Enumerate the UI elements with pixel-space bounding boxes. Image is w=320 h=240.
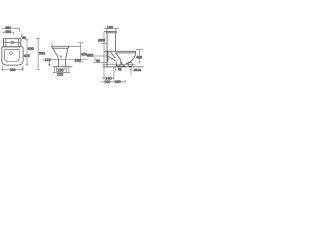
pedestal back inner line bbox=[107, 51, 109, 62]
dim 450 line and ticks bbox=[78, 43, 83, 62]
top dim ticks bbox=[107, 28, 116, 31]
center cross mark bbox=[60, 55, 62, 59]
front dim 220 line bbox=[53, 72, 70, 74]
dim 80 lower arrow bbox=[20, 43, 22, 45]
label 655 bbox=[28, 47, 34, 50]
label 228 bbox=[44, 58, 51, 62]
mid extension line bbox=[113, 67, 115, 80]
dim row1 arrows bbox=[2, 28, 20, 29]
svg-text:655: 655 bbox=[28, 47, 34, 51]
bowl-body right side bbox=[65, 46, 69, 67]
dim arrows 655 bbox=[26, 40, 27, 65]
seat rim side bbox=[104, 51, 136, 53]
trap curve 1 bbox=[110, 51, 116, 58]
dim 408 line bbox=[139, 50, 141, 58]
front floor line bbox=[53, 66, 72, 68]
inlet hole bbox=[10, 52, 13, 55]
front dim 190 line bbox=[57, 68, 67, 70]
flush button bbox=[11, 41, 13, 43]
dim 655-425 vertical line bbox=[26, 40, 29, 65]
bottom dim row1 ticks bbox=[110, 76, 112, 79]
plan bottom label 388 bbox=[10, 68, 16, 71]
228 down arrow bbox=[49, 61, 50, 66]
bottom dim row1 line bbox=[102, 77, 114, 79]
top dim 140 line bbox=[104, 28, 118, 30]
rim top extension line bbox=[69, 45, 81, 47]
bottom dim row2 line bbox=[101, 80, 126, 82]
trap outlet diagonal bbox=[120, 62, 126, 67]
tick above rim left bbox=[51, 43, 53, 46]
dim row2 line bbox=[2, 32, 13, 34]
front dim 190 arrows bbox=[57, 68, 67, 69]
micro label 48 bbox=[115, 67, 117, 71]
front ext lines below floor bbox=[55, 67, 69, 73]
dim row2 label 450 bbox=[5, 30, 10, 33]
label 220 bbox=[57, 73, 64, 76]
36 leader bbox=[93, 61, 107, 63]
rim top line bbox=[51, 45, 69, 47]
label 190 bbox=[57, 69, 63, 72]
underside to outlet bbox=[126, 62, 128, 64]
bowl outer plan bbox=[2, 47, 23, 65]
svg-text:48: 48 bbox=[118, 68, 122, 72]
dim row1 label 380 bbox=[5, 26, 12, 29]
dim 408 arrows bbox=[139, 50, 140, 64]
top dim label 180 bbox=[107, 26, 113, 29]
plan bottom dim 388 ext lines bbox=[2, 66, 23, 71]
svg-text:408: 408 bbox=[136, 56, 142, 60]
label 425 bbox=[24, 54, 30, 57]
svg-text:425: 425 bbox=[24, 54, 30, 58]
label 408 bbox=[136, 56, 142, 59]
trap inner curve bbox=[109, 57, 116, 62]
label O102 bbox=[133, 69, 141, 72]
O62 leader bbox=[93, 55, 107, 57]
bottom row1 arrows bbox=[102, 78, 113, 79]
O60 leader arrow bbox=[101, 43, 107, 45]
tank lid bbox=[106, 31, 116, 32]
label 450 bbox=[81, 53, 86, 57]
pedestal back bbox=[106, 51, 108, 67]
dim 450 arrows bbox=[80, 43, 81, 62]
rim second line bbox=[53, 47, 69, 49]
svg-text:365: 365 bbox=[115, 80, 121, 84]
wall line bbox=[104, 31, 106, 80]
front dim 220 arrows bbox=[55, 72, 69, 73]
svg-text:450: 450 bbox=[5, 30, 11, 34]
bowl-body left side bbox=[51, 46, 58, 67]
svg-text:Ø62: Ø62 bbox=[87, 53, 93, 57]
tank body bbox=[107, 33, 116, 52]
outlet centerline bbox=[103, 64, 136, 66]
dim 408 ext line bbox=[136, 49, 143, 51]
bottom row2 label 190 bbox=[104, 80, 110, 83]
label 590 bbox=[39, 51, 45, 55]
plan bottom arrows bbox=[2, 69, 23, 70]
bowl inner rim plan bbox=[4, 49, 19, 61]
dim row1 line bbox=[2, 28, 20, 31]
svg-text:180: 180 bbox=[107, 25, 113, 29]
outlet ellipse bbox=[128, 62, 132, 66]
top dim arrows bbox=[105, 28, 118, 29]
svg-text:220: 220 bbox=[57, 73, 63, 77]
trap curve 2 S-bend bbox=[116, 53, 122, 66]
svg-text:80: 80 bbox=[22, 36, 26, 40]
O62 elbow arrow bbox=[94, 57, 96, 61]
plan bottom dim line bbox=[2, 67, 24, 70]
dim 80 upper arrow bbox=[21, 34, 23, 37]
floor line bbox=[103, 66, 144, 68]
bottom row2 arrows bbox=[102, 81, 126, 82]
svg-text:590: 590 bbox=[39, 52, 45, 56]
foot front bbox=[115, 62, 117, 67]
dim arrows 590 bbox=[38, 38, 39, 69]
bowl front face bbox=[126, 51, 136, 63]
label 180 bbox=[74, 59, 81, 62]
svg-text:Ø102: Ø102 bbox=[134, 68, 142, 72]
svg-text:190: 190 bbox=[104, 80, 110, 84]
svg-text:388: 388 bbox=[10, 68, 16, 72]
cistern inner lines bbox=[3, 39, 21, 47]
horizontal reference line y59.6 bbox=[42, 59, 87, 61]
bottom row2 label 365 bbox=[115, 80, 121, 83]
O102 leader bbox=[130, 67, 132, 76]
svg-text:228: 228 bbox=[45, 58, 51, 62]
dim row2 arrows bbox=[2, 32, 13, 33]
cistern rect plan bbox=[3, 39, 21, 47]
bottom row1 label 140 bbox=[106, 76, 112, 79]
dim 590 vertical line bbox=[37, 38, 40, 69]
outlet bottom line bbox=[117, 65, 124, 67]
